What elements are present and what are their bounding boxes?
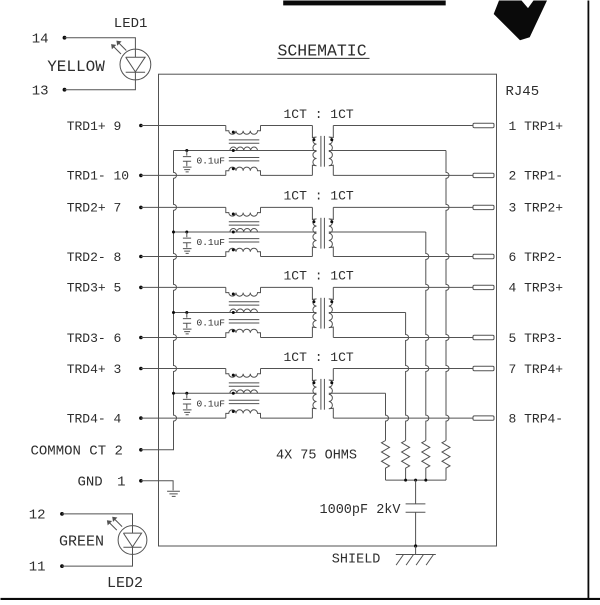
node pin 11 <box>60 564 64 568</box>
svg-text:SCHEMATIC: SCHEMATIC <box>278 42 367 61</box>
ground symbol (GND) <box>167 491 180 496</box>
pad pin 7 <box>473 366 494 370</box>
ground under C1 <box>183 167 192 172</box>
choke L1 top winding polarity dot <box>232 131 235 134</box>
choke L2 top winding polarity dot <box>232 213 235 216</box>
svg-text:GREEN: GREEN <box>59 534 104 551</box>
wire T1 secondary bottom to RJ45 pad <box>333 174 473 176</box>
wire LED2 cathode to pin11 <box>62 554 133 566</box>
ground under C3 <box>183 329 192 334</box>
wire center-tap line C2 junction to T2 primary CT <box>174 231 317 233</box>
pad pin 8 <box>473 416 494 420</box>
svg-text:TRD2- 8: TRD2- 8 <box>67 250 122 265</box>
wire T2 secondary bottom to RJ45 pad <box>333 256 473 258</box>
choke L1 top winding <box>226 126 261 135</box>
svg-text:COMMON CT 2: COMMON CT 2 <box>31 443 123 459</box>
choke L1 bottom winding polarity dot <box>232 167 235 170</box>
junction shield node <box>414 544 417 547</box>
transformer T2 primary polarity dot <box>312 220 315 223</box>
svg-text:TRD4- 4: TRD4- 4 <box>67 411 122 426</box>
transformer T4 secondary winding <box>329 369 334 419</box>
svg-text:TRD3+ 5: TRD3+ 5 <box>67 281 122 296</box>
RJ45 connector body outline <box>159 74 497 546</box>
node pin 12 <box>60 512 64 516</box>
choke L3 bottom winding <box>226 329 261 337</box>
wire TRD3- to choke L3 bottom <box>141 337 226 339</box>
wire pin12 to LED2 anode <box>62 514 133 526</box>
LED1 emission arrows <box>113 43 126 55</box>
LED2 emission arrows <box>109 519 122 531</box>
capacitor C2 0.1uF <box>183 232 191 248</box>
wire choke L1 to transformer T1 primary bottom <box>261 174 313 176</box>
svg-text:YELLOW: YELLOW <box>47 58 105 76</box>
wire TRD4+ to choke L4 <box>141 368 226 370</box>
pad pin 6 <box>473 254 494 258</box>
node TRD4- <box>139 416 143 420</box>
node TRD1- <box>139 174 143 178</box>
svg-text:8 TRP4-: 8 TRP4- <box>509 411 564 426</box>
transformer T4 primary polarity dot <box>312 381 315 384</box>
wire TRD3+ to choke L3 <box>141 286 226 288</box>
capacitor C3 0.1uF <box>183 313 191 329</box>
bottom page border <box>1 598 600 601</box>
capacitor C5 1000pF 2kV <box>406 480 426 546</box>
choke L1 middle winding <box>230 147 258 150</box>
resistor R1 75 ohms <box>382 441 390 481</box>
choke L2 core <box>229 221 259 223</box>
chassis ground (shield) <box>396 546 436 565</box>
svg-text:0.1uF: 0.1uF <box>197 398 226 409</box>
transformer T2 secondary winding <box>329 207 334 256</box>
svg-text:12: 12 <box>29 508 46 524</box>
choke L2 middle winding <box>230 229 258 232</box>
wire TRD1- to choke L1 bottom <box>141 174 226 176</box>
wire T4 secondary bottom to RJ45 pad <box>333 417 473 419</box>
svg-text:6 TRP2-: 6 TRP2- <box>509 250 564 265</box>
svg-text:13: 13 <box>32 83 49 99</box>
wire choke L2 to transformer T2 primary bottom <box>261 256 313 258</box>
choke L4 core <box>229 382 259 384</box>
transformer T1 secondary polarity dot <box>330 138 333 141</box>
wire T4 secondary top to RJ45 pad <box>333 368 473 370</box>
checkmark logo <box>494 1 547 41</box>
wire TRD2+ to choke L2 <box>141 206 226 208</box>
svg-text:LED1: LED1 <box>114 16 148 32</box>
svg-text:GND: GND <box>78 474 103 490</box>
choke L3 top winding polarity dot <box>232 293 235 296</box>
node COMMON CT <box>139 448 143 452</box>
wire TRD2- to choke L2 bottom <box>141 256 226 258</box>
transformer T2 core <box>320 218 322 249</box>
svg-text:11: 11 <box>29 560 46 576</box>
svg-text:14: 14 <box>32 31 49 47</box>
capacitor C1 0.1uF junction <box>185 149 188 152</box>
svg-text:0.1uF: 0.1uF <box>197 318 226 329</box>
resistor R4 75 ohms <box>442 441 450 481</box>
transformer T4 core <box>320 379 322 410</box>
svg-text:LED2: LED2 <box>107 575 143 592</box>
wire T2 secondary top to RJ45 pad <box>333 206 473 208</box>
svg-text:2 TRP1-: 2 TRP1- <box>509 169 564 184</box>
wire T3 secondary CT to bus <box>329 312 406 314</box>
pad pin 2 <box>473 173 494 177</box>
ground under C4 <box>183 410 192 415</box>
choke L2 top winding <box>226 207 261 216</box>
LED D1 symbol <box>120 49 151 80</box>
choke L3 middle winding <box>230 309 258 312</box>
choke L3 top winding <box>226 287 261 296</box>
svg-text:4X 75 OHMS: 4X 75 OHMS <box>276 448 357 463</box>
node TRD2- <box>139 255 143 259</box>
choke L2 middle winding polarity dot <box>232 231 235 234</box>
transformer T3 primary winding <box>312 287 316 337</box>
transformer T4 secondary polarity dot <box>330 381 333 384</box>
capacitor C2 0.1uF junction <box>185 231 188 234</box>
node pin 14 <box>63 36 67 40</box>
node pin 13 <box>63 88 67 92</box>
transformer T3 core <box>320 298 322 329</box>
svg-text:1 TRP1+: 1 TRP1+ <box>509 119 564 134</box>
resistor R2 75 ohms <box>402 441 410 481</box>
junction bus center <box>414 479 417 482</box>
pad pin 1 <box>473 123 494 127</box>
transformer T3 primary polarity dot <box>312 300 315 303</box>
wire T4 secondary CT to bus <box>329 392 386 394</box>
svg-text:0.1uF: 0.1uF <box>197 156 226 167</box>
node TRD2+ <box>139 206 143 210</box>
choke L1 middle winding polarity dot <box>232 149 235 152</box>
choke L4 top winding polarity dot <box>232 374 235 377</box>
top header bar (cropped logo) <box>283 1 446 6</box>
choke L2 bottom winding polarity dot <box>232 248 235 251</box>
svg-text:1CT : 1CT: 1CT : 1CT <box>284 269 354 284</box>
pad pin 3 <box>473 205 494 209</box>
svg-text:7 TRP4+: 7 TRP4+ <box>509 362 564 377</box>
pad pin 4 <box>473 285 494 289</box>
transformer T2 primary winding <box>312 207 316 256</box>
wire T3 secondary bottom to RJ45 pad <box>333 337 473 339</box>
pad pin 5 <box>473 335 494 339</box>
transformer T2 secondary polarity dot <box>330 220 333 223</box>
capacitor C1 0.1uF <box>183 151 191 167</box>
transformer T3 secondary polarity dot <box>330 300 333 303</box>
svg-text:1000pF 2kV: 1000pF 2kV <box>320 503 402 518</box>
svg-text:SHIELD: SHIELD <box>332 552 381 567</box>
svg-text:4 TRP3+: 4 TRP3+ <box>509 281 564 296</box>
junction CT bus <box>172 231 175 234</box>
node TRD3- <box>139 336 143 340</box>
wire LED1 cathode to pin13 <box>65 80 136 90</box>
transformer T1 primary winding <box>312 126 316 176</box>
choke L3 bottom winding polarity dot <box>232 329 235 332</box>
wire center-tap line C4 junction to T4 primary CT <box>174 392 317 394</box>
svg-text:TRD2+ 7: TRD2+ 7 <box>67 201 122 216</box>
wire T1 secondary CT to bus <box>329 150 446 152</box>
capacitor C3 0.1uF junction <box>185 311 188 314</box>
choke L2 bottom winding <box>226 248 261 256</box>
junction CT bus <box>172 311 175 314</box>
transformer T4 primary winding <box>312 369 316 419</box>
wire choke L3 to transformer T3 primary top <box>261 286 313 288</box>
junction R3 bottom <box>424 479 427 482</box>
bus T1 CT down to R4 <box>446 151 449 441</box>
svg-text:TRD3- 6: TRD3- 6 <box>67 331 122 346</box>
svg-text:1CT : 1CT: 1CT : 1CT <box>284 107 354 122</box>
wire choke L3 to transformer T3 primary bottom <box>261 337 313 339</box>
common CT bus (caps to pin 2) <box>141 151 177 450</box>
wire TRD4- to choke L4 bottom <box>141 417 226 419</box>
choke L4 bottom winding polarity dot <box>232 410 235 413</box>
wire choke L1 to transformer T1 primary top <box>261 125 313 127</box>
svg-text:TRD1+ 9: TRD1+ 9 <box>67 119 122 134</box>
capacitor C4 0.1uF <box>183 393 191 409</box>
wire choke L4 to transformer T4 primary top <box>261 368 313 370</box>
svg-text:TRD4+ 3: TRD4+ 3 <box>67 362 122 377</box>
bus T3 CT down to R2 <box>406 313 409 441</box>
svg-text:0.1uF: 0.1uF <box>197 237 226 248</box>
wire choke L2 to transformer T2 primary top <box>261 206 313 208</box>
bus T2 CT down to R3 <box>426 232 429 441</box>
wire T1 secondary top to RJ45 pad <box>333 125 473 127</box>
bus T4 CT down to R1 <box>386 393 389 440</box>
choke L3 core <box>229 301 259 303</box>
node TRD4+ <box>139 367 143 371</box>
svg-text:RJ45: RJ45 <box>506 84 540 100</box>
svg-text:5 TRP3-: 5 TRP3- <box>509 331 564 346</box>
transformer T1 secondary winding <box>329 126 334 176</box>
choke L1 core <box>229 139 259 141</box>
choke L4 bottom winding <box>226 410 261 418</box>
wire T3 secondary top to RJ45 pad <box>333 286 473 288</box>
svg-text:TRD1- 10: TRD1- 10 <box>67 169 129 184</box>
node GND <box>139 479 143 483</box>
choke L3 middle winding polarity dot <box>232 311 235 314</box>
resistor R3 75 ohms <box>422 441 430 481</box>
svg-text:3 TRP2+: 3 TRP2+ <box>509 201 564 216</box>
svg-text:1: 1 <box>117 474 125 490</box>
choke L1 bottom winding <box>226 167 261 175</box>
svg-text:1CT : 1CT: 1CT : 1CT <box>284 350 354 365</box>
choke L4 middle winding <box>230 390 258 393</box>
wire T2 secondary CT to bus <box>329 231 426 233</box>
junction R2 bottom <box>404 479 407 482</box>
ground under C2 <box>183 249 192 254</box>
node TRD1+ <box>139 124 143 128</box>
LED D2 symbol <box>118 526 147 555</box>
transformer T3 secondary winding <box>329 287 334 337</box>
wire TRD1+ to choke L1 <box>141 125 226 127</box>
transformer T1 core <box>320 136 322 167</box>
choke L4 top winding <box>226 369 261 378</box>
choke L4 middle winding polarity dot <box>232 392 235 395</box>
wire GND pin to ground <box>141 481 173 491</box>
resistor bottom bus <box>386 479 447 481</box>
wire center-tap line C3 junction to T3 primary CT <box>174 312 317 314</box>
node TRD3+ <box>139 286 143 290</box>
svg-text:1CT : 1CT: 1CT : 1CT <box>284 189 354 204</box>
capacitor C4 0.1uF junction <box>185 392 188 395</box>
wire pin14 to LED1 anode <box>65 38 136 49</box>
transformer T1 primary polarity dot <box>312 138 315 141</box>
wire center-tap line C1 junction to T1 primary CT <box>174 150 317 152</box>
junction CT bus <box>172 392 175 395</box>
wire choke L4 to transformer T4 primary bottom <box>261 417 313 419</box>
right page border <box>588 1 590 601</box>
